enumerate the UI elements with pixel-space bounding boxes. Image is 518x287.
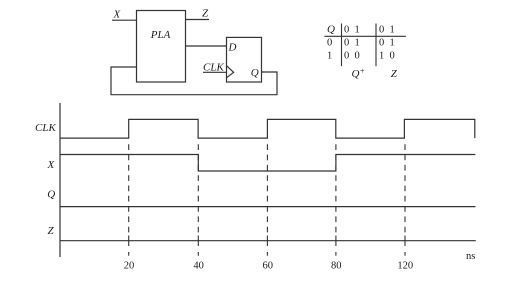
svg-text:1: 1 xyxy=(355,25,360,36)
svg-text:ns: ns xyxy=(466,251,475,262)
svg-text:Q+: Q+ xyxy=(352,67,365,81)
wire Z output xyxy=(186,19,210,21)
svg-text:Q: Q xyxy=(327,24,335,36)
wire PLA to D input xyxy=(186,45,227,47)
svg-text:0: 0 xyxy=(379,25,384,36)
svg-text:0: 0 xyxy=(344,51,349,62)
svg-text:0: 0 xyxy=(344,25,349,36)
axis tick t=20 xyxy=(128,236,130,247)
tick tail dash t=20 xyxy=(128,252,130,256)
svg-text:1: 1 xyxy=(379,51,384,62)
table vertical line 1 xyxy=(341,24,343,67)
truth table lines xyxy=(324,24,406,67)
svg-text:80: 80 xyxy=(331,261,342,272)
svg-text:CLK: CLK xyxy=(203,61,224,73)
svg-text:0: 0 xyxy=(390,51,395,62)
axis tick t=120 xyxy=(404,236,406,247)
axis tick t=60 xyxy=(266,236,268,247)
dashed gridline t=20 xyxy=(128,144,130,232)
table header separator line xyxy=(324,35,406,37)
svg-text:X: X xyxy=(47,159,56,171)
Q waveform xyxy=(60,206,476,208)
dashed gridline t=80 xyxy=(335,144,337,232)
axis tick t=80 xyxy=(335,236,337,247)
tick tail dash t=60 xyxy=(266,252,268,256)
svg-text:Z: Z xyxy=(391,68,398,80)
svg-text:Q: Q xyxy=(251,67,259,79)
CLK waveform xyxy=(60,119,475,138)
svg-text:120: 120 xyxy=(397,261,413,272)
wire Q feedback to PLA xyxy=(111,67,277,95)
clock edge triangle on flip-flop xyxy=(227,66,234,78)
axis tick t=40 xyxy=(197,236,199,247)
tick tail dash t=120 xyxy=(404,252,406,256)
svg-text:Z: Z xyxy=(48,225,55,237)
PLA block U1 xyxy=(137,11,186,83)
wire X input xyxy=(112,19,137,21)
svg-text:40: 40 xyxy=(193,261,204,272)
svg-text:20: 20 xyxy=(124,261,135,272)
svg-text:X: X xyxy=(113,9,122,21)
dashed gridline t=120 xyxy=(404,144,406,232)
svg-text:0: 0 xyxy=(327,37,332,48)
svg-text:0: 0 xyxy=(344,37,349,48)
wire CLK input xyxy=(203,71,227,73)
svg-text:Z: Z xyxy=(202,8,209,20)
svg-text:Q: Q xyxy=(47,188,55,200)
svg-text:0: 0 xyxy=(355,51,360,62)
tick tail dash t=40 xyxy=(197,252,199,256)
dashed gridline t=60 xyxy=(266,144,268,232)
Z waveform / time axis xyxy=(60,240,476,242)
svg-text:D: D xyxy=(228,42,237,54)
timing diagram xyxy=(60,103,476,257)
svg-text:CLK: CLK xyxy=(35,122,56,134)
svg-text:PLA: PLA xyxy=(150,29,171,41)
tick tail dash t=80 xyxy=(335,252,337,256)
svg-text:1: 1 xyxy=(327,51,332,62)
svg-text:1: 1 xyxy=(390,37,395,48)
table vertical line 2 xyxy=(375,24,377,67)
svg-text:1: 1 xyxy=(355,37,360,48)
X waveform xyxy=(60,155,475,172)
timing axis vertical xyxy=(59,103,61,257)
dashed gridline t=40 xyxy=(197,144,199,232)
D flip-flop U2 xyxy=(227,37,262,82)
svg-text:0: 0 xyxy=(379,37,384,48)
svg-text:1: 1 xyxy=(390,25,395,36)
svg-text:60: 60 xyxy=(262,261,273,272)
